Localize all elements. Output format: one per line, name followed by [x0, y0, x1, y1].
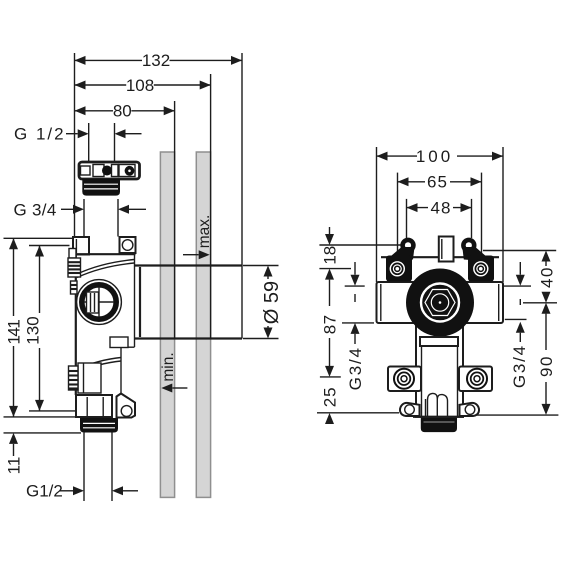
- svg-text:100: 100: [416, 147, 453, 166]
- bottom tab right: [460, 403, 480, 416]
- svg-text:G1/2: G1/2: [26, 482, 63, 501]
- svg-text:108: 108: [126, 76, 154, 95]
- bottom outlet pipe: [83, 433, 85, 502]
- top fitting ribbed black connector: [82, 179, 120, 196]
- svg-text:80: 80: [113, 102, 132, 121]
- slot below ring: [420, 337, 458, 346]
- lower column: [416, 323, 463, 417]
- dimension 87: [329, 280, 331, 306]
- svg-text:11: 11: [4, 457, 23, 475]
- svg-text:65: 65: [427, 173, 448, 192]
- svg-text:40: 40: [537, 266, 556, 288]
- washer bracket right: [468, 256, 494, 282]
- lower saddle arcs: [77, 358, 121, 370]
- top plate bar: [381, 256, 499, 258]
- svg-text:max.: max.: [196, 215, 213, 249]
- extension line left plane x=74.5: [74, 53, 76, 237]
- bottom tab left: [400, 403, 420, 416]
- bottom outlet base box: [76, 395, 112, 417]
- eyelet right: [461, 238, 476, 253]
- svg-text:141: 141: [4, 320, 23, 345]
- wall tile bar 2 (max plaster depth): [196, 152, 210, 497]
- svg-text:18: 18: [320, 246, 339, 265]
- funnel detail inside column: [426, 393, 448, 416]
- top fitting body: [79, 162, 140, 179]
- svg-text:G 3/4: G 3/4: [14, 200, 57, 219]
- eyelet left: [400, 238, 415, 253]
- sleeve cylinder outline: [135, 264, 243, 266]
- mid screw plate right: [459, 367, 492, 392]
- clip below upper port: [71, 281, 78, 294]
- svg-text:G3/4: G3/4: [510, 344, 529, 388]
- dimension 130: [29, 245, 70, 247]
- lower-left G3/4 side port: [78, 363, 101, 393]
- body top-left screw tab: [73, 237, 89, 255]
- dimension 132 top: [75, 59, 143, 61]
- svg-text:Ø 59: Ø 59: [261, 281, 283, 324]
- dimension Ø 59: [243, 265, 279, 267]
- right G3/4 port dimension: [519, 262, 521, 275]
- central top tab: [439, 237, 454, 262]
- svg-text:132: 132: [142, 51, 170, 70]
- body plate top line: [73, 253, 136, 255]
- body step lower right: [121, 346, 135, 348]
- cartridge circle assembly: [77, 280, 122, 325]
- front bottom ribbed black connector: [421, 418, 457, 432]
- svg-text:G3/4: G3/4: [346, 346, 365, 390]
- body outline right edge upper: [134, 255, 136, 347]
- dimension 108: [75, 84, 127, 86]
- extension line x=174.7 (80), runs to sleeve bottom: [174, 101, 176, 339]
- mid screw plate left: [388, 367, 421, 392]
- upper-left G3/4 side port: [69, 249, 76, 259]
- dimension 40: [483, 250, 556, 252]
- bottom-right tab with screw hole: [117, 394, 136, 418]
- upper saddle arcs: [77, 260, 134, 275]
- small box on lower right of body: [110, 337, 128, 348]
- dimension 18: [319, 244, 409, 246]
- dimension 11 bottom left: [4, 432, 82, 434]
- svg-text:90: 90: [537, 355, 556, 377]
- svg-text:130: 130: [24, 316, 43, 344]
- body top-right tab with screw hole: [120, 237, 136, 253]
- extension line x=242 (132): [241, 53, 243, 266]
- svg-text:min.: min.: [160, 352, 177, 381]
- eyelet stems: [391, 247, 415, 261]
- body outline left edge: [75, 254, 77, 395]
- svg-text:48: 48: [431, 198, 452, 217]
- wall tile bar 1 (min plaster depth): [160, 152, 174, 497]
- front body bottom edge: [413, 416, 464, 418]
- big front ring (plaster cover seal): [406, 269, 474, 337]
- dimension 141: [4, 237, 75, 239]
- dimension 48: [407, 207, 429, 209]
- left G3/4 port dimension: [354, 262, 356, 275]
- svg-text:G 1/2: G 1/2: [14, 125, 66, 144]
- svg-text:25: 25: [320, 386, 339, 407]
- washer bracket left: [386, 256, 412, 282]
- dimension 80: [75, 110, 114, 112]
- dimension 100: [377, 155, 418, 157]
- extension line x=210.7 (108), runs to sleeve bottom: [210, 74, 212, 339]
- dimension 65: [398, 181, 426, 183]
- bottom outlet ribbed black connector: [80, 418, 118, 433]
- front body main plate: [377, 282, 504, 323]
- svg-text:87: 87: [320, 314, 339, 334]
